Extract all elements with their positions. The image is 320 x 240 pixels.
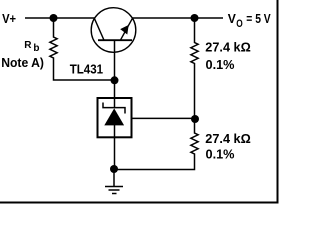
svg-text:0.1%: 0.1% <box>206 147 235 162</box>
svg-text:V+: V+ <box>2 11 16 26</box>
svg-text:27.4 kΩ: 27.4 kΩ <box>205 131 251 146</box>
svg-text:Note A): Note A) <box>1 55 44 70</box>
svg-text:= 5 V: = 5 V <box>246 11 271 26</box>
svg-text:R: R <box>24 40 32 51</box>
svg-text:0.1%: 0.1% <box>206 57 235 72</box>
svg-text:O: O <box>236 18 243 30</box>
svg-text:V: V <box>228 11 236 26</box>
svg-text:b: b <box>33 43 39 54</box>
svg-text:TL431: TL431 <box>70 62 103 77</box>
svg-text:27.4 kΩ: 27.4 kΩ <box>205 40 251 55</box>
